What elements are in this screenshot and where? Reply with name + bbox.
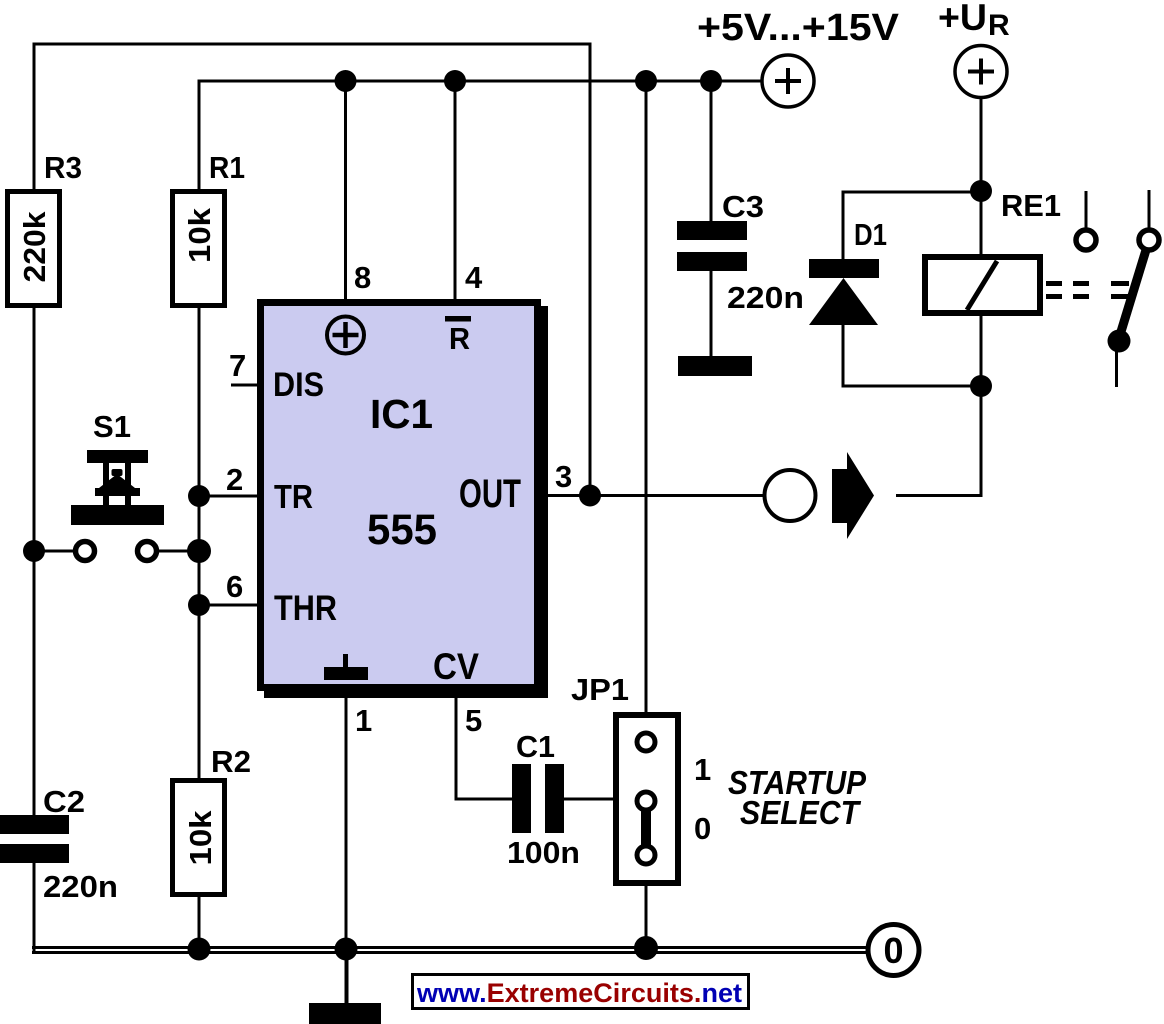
wire D1 top loop bbox=[843, 192, 981, 260]
jumper JP1 bbox=[571, 672, 678, 883]
ground bar under C3 bbox=[678, 356, 752, 376]
svg-text:C1: C1 bbox=[516, 729, 555, 764]
wire pin 1 to ground rail bbox=[345, 698, 348, 950]
svg-text:+5V...+15V: +5V...+15V bbox=[697, 7, 900, 49]
wire R1 bottom to R2 top bbox=[198, 308, 201, 778]
node dot pin8 rail bbox=[335, 70, 357, 92]
wire S1 right contact bbox=[158, 550, 199, 553]
wire C2 bottom to ground rail bbox=[33, 863, 36, 952]
wire JP1 pin1 up to supply rail bbox=[645, 81, 648, 733]
svg-text:220n: 220n bbox=[727, 280, 804, 315]
resistor R3 bbox=[8, 150, 83, 306]
node dot relay top bbox=[970, 180, 992, 202]
svg-text:JP1: JP1 bbox=[571, 672, 629, 707]
svg-text:3: 3 bbox=[555, 459, 572, 494]
node dot C3 rail bbox=[700, 70, 722, 92]
node dot pin4 rail bbox=[444, 70, 466, 92]
wire C3 bottom to ground bar bbox=[710, 271, 713, 357]
relay contact B bbox=[1139, 230, 1159, 250]
svg-text:R2: R2 bbox=[211, 744, 251, 779]
svg-text:C3: C3 bbox=[722, 189, 764, 224]
svg-text:8: 8 bbox=[354, 260, 371, 295]
svg-text:220k: 220k bbox=[17, 211, 52, 283]
svg-text:10k: 10k bbox=[183, 810, 218, 866]
wire pin 2 stub bbox=[199, 495, 260, 498]
wire output arrow to relay bottom bbox=[896, 316, 981, 496]
svg-text:+U: +U bbox=[938, 0, 987, 38]
IC1 R-bar (pin 4) symbol bbox=[445, 316, 471, 356]
svg-text:D1: D1 bbox=[854, 217, 887, 252]
wire pin 3 OUT to output circle bbox=[544, 494, 763, 497]
output arrow bbox=[832, 452, 874, 539]
watermark box www.ExtremeCircuits.net bbox=[413, 975, 749, 1009]
svg-text:0: 0 bbox=[883, 930, 903, 971]
wire D1 bottom loop bbox=[843, 324, 981, 386]
svg-text:IC1: IC1 bbox=[370, 391, 433, 437]
svg-text:SELECT: SELECT bbox=[740, 794, 862, 831]
svg-text:0: 0 bbox=[694, 811, 711, 846]
wire JP1 pin 0 to ground rail bbox=[645, 864, 648, 950]
wire pin 5 CV down to C1 bbox=[456, 698, 512, 799]
node dot S1 right bbox=[187, 539, 211, 563]
resistor R2 bbox=[173, 744, 252, 895]
svg-text:R3: R3 bbox=[44, 150, 82, 185]
svg-text:C2: C2 bbox=[43, 784, 85, 819]
svg-text:4: 4 bbox=[465, 260, 483, 295]
node dot THR junction bbox=[188, 594, 210, 616]
svg-text:10k: 10k bbox=[182, 207, 217, 263]
svg-text:R1: R1 bbox=[209, 150, 245, 185]
svg-text:CV: CV bbox=[433, 646, 479, 687]
wire relay contact stub A bbox=[1085, 191, 1088, 229]
wire pin 6 stub bbox=[199, 604, 260, 607]
svg-text:220n: 220n bbox=[43, 869, 118, 904]
svg-text:1: 1 bbox=[355, 703, 372, 738]
IC1 plus (pin 8) symbol bbox=[327, 317, 364, 354]
svg-text:S1: S1 bbox=[93, 409, 131, 444]
supply symbol +5V...+15V bbox=[697, 7, 900, 107]
wire pin 7 stub bbox=[231, 384, 260, 387]
wire ground rail (double line) bbox=[32, 948, 869, 953]
svg-text:555: 555 bbox=[367, 506, 437, 554]
wire S1 left contact bbox=[34, 550, 74, 553]
wire R3 bottom to C2 top bbox=[33, 308, 36, 816]
capacitor C1 bbox=[507, 729, 580, 870]
relay RE1 coil bbox=[925, 188, 1061, 313]
wire R2 bottom to ground rail bbox=[198, 897, 201, 950]
capacitor C3 bbox=[677, 189, 804, 315]
node dot pin1 ground rail bbox=[335, 938, 358, 961]
svg-text:DIS: DIS bbox=[273, 366, 324, 404]
wire supply rail y=81 from R1 top bbox=[199, 81, 762, 189]
wire C3 up to supply rail bbox=[710, 81, 713, 221]
node dot JP1 ground rail bbox=[634, 936, 658, 960]
svg-text:OUT: OUT bbox=[459, 472, 521, 516]
node dot relay bottom bbox=[970, 375, 992, 397]
node dot OUT junction bbox=[579, 485, 601, 507]
terminal 0 bbox=[868, 925, 919, 976]
wire +UR down to relay bbox=[980, 99, 983, 256]
node dot TR junction bbox=[188, 485, 210, 507]
resistor R1 bbox=[173, 150, 246, 306]
svg-text:7: 7 bbox=[229, 348, 246, 383]
node dot R2 ground rail bbox=[188, 938, 211, 961]
svg-text:5: 5 bbox=[465, 703, 482, 738]
relay switch pivot bbox=[1108, 330, 1131, 353]
svg-text:TR: TR bbox=[274, 478, 313, 515]
supply symbol +UR bbox=[938, 0, 1010, 98]
svg-text:RE1: RE1 bbox=[1001, 188, 1061, 223]
svg-text:R: R bbox=[449, 321, 470, 356]
diode D1 bbox=[809, 217, 887, 325]
ground symbol bottom bbox=[309, 950, 381, 1024]
capacitor C2 bbox=[0, 784, 118, 904]
relay linkage dashed lines bbox=[1046, 284, 1129, 297]
relay switch arm bbox=[1116, 250, 1146, 348]
op IC1 555 body bbox=[261, 303, 549, 699]
output terminal circle bbox=[765, 470, 816, 521]
svg-text:R: R bbox=[988, 9, 1010, 42]
wire pin 8 to supply rail bbox=[344, 81, 347, 299]
svg-text:www.ExtremeCircuits.net: www.ExtremeCircuits.net bbox=[416, 978, 742, 1008]
wire pin 4 to supply rail bbox=[454, 81, 457, 299]
wire below switch pivot bbox=[1115, 341, 1118, 387]
node dot S1 left bbox=[23, 540, 45, 562]
relay contact A bbox=[1076, 230, 1096, 250]
node dot JP1 rail bbox=[635, 70, 657, 92]
wire C1 to JP1 middle pin bbox=[564, 798, 637, 801]
pushbutton S1 bbox=[71, 409, 164, 561]
svg-text:2: 2 bbox=[226, 462, 243, 497]
wire top-left loop: +V rail top, down to OUT junction bbox=[34, 44, 590, 495]
svg-text:6: 6 bbox=[226, 569, 243, 604]
svg-text:THR: THR bbox=[274, 589, 337, 628]
svg-text:1: 1 bbox=[694, 752, 711, 787]
IC1 internal ground symbol (pin 1) bbox=[324, 654, 368, 680]
svg-text:100n: 100n bbox=[507, 835, 580, 870]
text STARTUP SELECT bbox=[728, 764, 867, 831]
wire relay contact stub B bbox=[1148, 190, 1151, 228]
